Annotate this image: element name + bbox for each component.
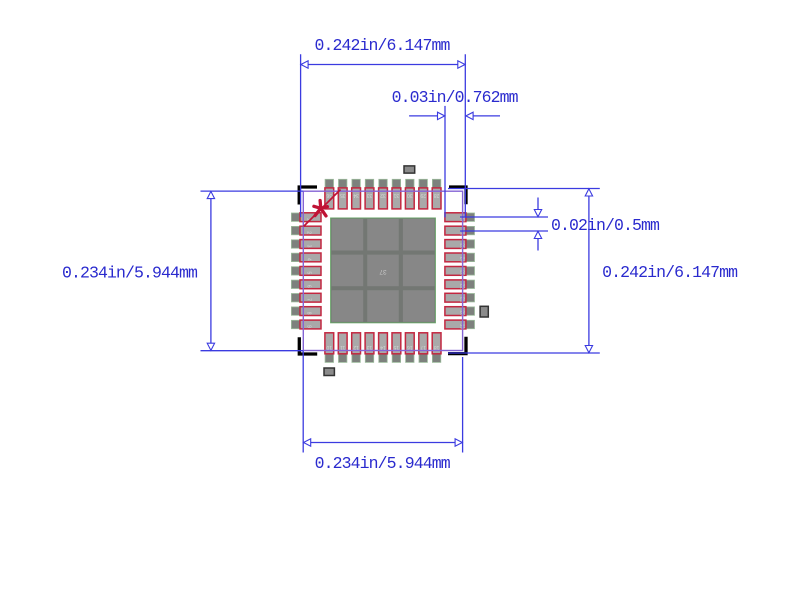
- pad 12: [352, 333, 361, 363]
- pad 11: [338, 333, 347, 363]
- fiducial rectangle top: [404, 166, 415, 173]
- right dim arrow down: [585, 346, 592, 353]
- thermal pad paste grid 3x3: [332, 219, 435, 322]
- bottom dim arrow right: [455, 439, 462, 446]
- top dim arrow left: [301, 61, 308, 68]
- svg-text:37: 37: [379, 268, 387, 275]
- pad dim left arrow: [438, 112, 445, 119]
- bottom dim arrow left: [304, 439, 311, 446]
- top dim line: [301, 64, 466, 66]
- package body outline (6.0mm square): [303, 191, 462, 350]
- svg-text:23: 23: [458, 270, 464, 276]
- svg-text:14: 14: [380, 344, 386, 350]
- svg-text:0.02in/0.5mm: 0.02in/0.5mm: [551, 216, 660, 235]
- svg-text:12: 12: [353, 344, 359, 350]
- pad 27: [445, 213, 475, 222]
- corner bracket bottom-left: [299, 337, 317, 354]
- svg-text:4: 4: [305, 258, 311, 261]
- left dim extension line top: [201, 190, 304, 192]
- svg-text:32: 32: [380, 192, 386, 198]
- svg-text:0.03in/0.762mm: 0.03in/0.762mm: [392, 88, 519, 107]
- svg-text:19: 19: [458, 324, 464, 330]
- pad 20: [445, 307, 475, 316]
- svg-text:33: 33: [367, 192, 373, 198]
- pad 4: [291, 253, 321, 262]
- svg-text:34: 34: [353, 192, 359, 198]
- bottom dim extension line left: [302, 351, 304, 453]
- pad 7: [291, 293, 321, 302]
- svg-text:17: 17: [420, 344, 426, 350]
- pad 8: [291, 307, 321, 316]
- pitch dim upper leader: [537, 198, 539, 210]
- bottom dim line: [303, 442, 462, 444]
- fiducial rectangle right: [480, 306, 488, 317]
- svg-text:0.234in/5.944mm: 0.234in/5.944mm: [62, 264, 198, 283]
- svg-text:20: 20: [458, 310, 464, 316]
- pad 25: [445, 240, 475, 249]
- svg-text:8: 8: [305, 312, 311, 315]
- pitch dim pad2 extension line: [460, 230, 548, 232]
- pad dim extension line: [444, 106, 446, 217]
- pitch dim lower arrow: [534, 231, 541, 238]
- svg-text:22: 22: [458, 284, 464, 290]
- svg-text:36: 36: [326, 192, 332, 198]
- pad 35: [338, 179, 347, 209]
- pad 3: [291, 240, 321, 249]
- svg-text:0.242in/6.147mm: 0.242in/6.147mm: [602, 263, 738, 282]
- pitch dim upper arrow: [534, 210, 541, 217]
- pad 21: [445, 293, 475, 302]
- corner bracket top-right: [449, 187, 466, 204]
- pad dim right leader: [472, 115, 500, 117]
- pad 9: [291, 320, 321, 329]
- svg-text:35: 35: [340, 192, 346, 198]
- pad 16: [405, 333, 414, 363]
- pad 19: [445, 320, 475, 329]
- pad 33: [365, 179, 374, 209]
- right dim line: [588, 189, 590, 354]
- pad 26: [445, 226, 475, 235]
- svg-text:25: 25: [458, 243, 464, 249]
- pad 2: [291, 226, 321, 235]
- svg-text:18: 18: [434, 344, 440, 350]
- svg-text:0.242in/6.147mm: 0.242in/6.147mm: [314, 36, 450, 55]
- svg-text:6: 6: [305, 285, 311, 288]
- svg-text:0.234in/5.944mm: 0.234in/5.944mm: [315, 454, 451, 473]
- left dim arrow down: [207, 343, 214, 350]
- svg-text:10: 10: [326, 344, 332, 350]
- right dim arrow up: [585, 189, 592, 196]
- pad 22: [445, 280, 475, 289]
- pad 13: [365, 333, 374, 363]
- pad 23: [445, 267, 475, 276]
- pad 31: [392, 179, 401, 209]
- pad dim left leader: [409, 115, 438, 117]
- svg-text:28: 28: [434, 192, 440, 198]
- pad 1: [291, 213, 321, 222]
- pad 30: [405, 179, 414, 209]
- thermal pad 37 (exposed pad): [331, 218, 436, 323]
- pad dim right arrow: [466, 112, 473, 119]
- top dim extension line right: [464, 54, 466, 218]
- pad 10: [325, 333, 334, 363]
- svg-text:16: 16: [407, 344, 413, 350]
- pad 34: [352, 179, 361, 209]
- pad 14: [379, 333, 388, 363]
- left dim arrow up: [207, 191, 214, 198]
- svg-text:30: 30: [407, 192, 413, 198]
- pin-1 diagonal line: [304, 190, 341, 227]
- fiducial rectangle bottom: [324, 368, 334, 376]
- right dim extension line top: [448, 188, 600, 190]
- svg-text:29: 29: [420, 192, 426, 198]
- pad 32: [379, 179, 388, 209]
- svg-text:31: 31: [393, 192, 399, 198]
- pad 17: [419, 333, 428, 363]
- pad 6: [291, 280, 321, 289]
- bottom dim extension line right: [462, 357, 464, 453]
- svg-text:24: 24: [458, 257, 464, 263]
- right dim extension line bottom: [448, 352, 600, 354]
- svg-text:15: 15: [393, 344, 399, 350]
- corner bracket bottom-right: [448, 337, 466, 354]
- pad 24: [445, 253, 475, 262]
- svg-text:2: 2: [305, 231, 311, 234]
- pitch dim lower leader: [537, 238, 539, 250]
- svg-text:13: 13: [367, 344, 373, 350]
- pin-1 asterisk marker: [314, 201, 328, 216]
- svg-text:9: 9: [305, 325, 311, 328]
- pad 28: [432, 179, 441, 209]
- pad 15: [392, 333, 401, 363]
- top dim extension line left: [300, 54, 302, 217]
- top dim arrow right: [458, 61, 465, 68]
- pad 36: [325, 179, 334, 209]
- pad 5: [291, 267, 321, 276]
- svg-text:21: 21: [458, 297, 464, 303]
- pad 18: [432, 333, 441, 363]
- svg-text:5: 5: [305, 272, 311, 275]
- svg-text:7: 7: [305, 298, 311, 301]
- left dim line: [210, 191, 212, 351]
- corner bracket top-left: [299, 187, 317, 205]
- pitch dim pad1 extension line: [460, 216, 548, 218]
- svg-text:3: 3: [305, 245, 311, 248]
- pad 29: [419, 179, 428, 209]
- svg-text:11: 11: [340, 344, 345, 350]
- left dim extension line bottom: [201, 350, 304, 352]
